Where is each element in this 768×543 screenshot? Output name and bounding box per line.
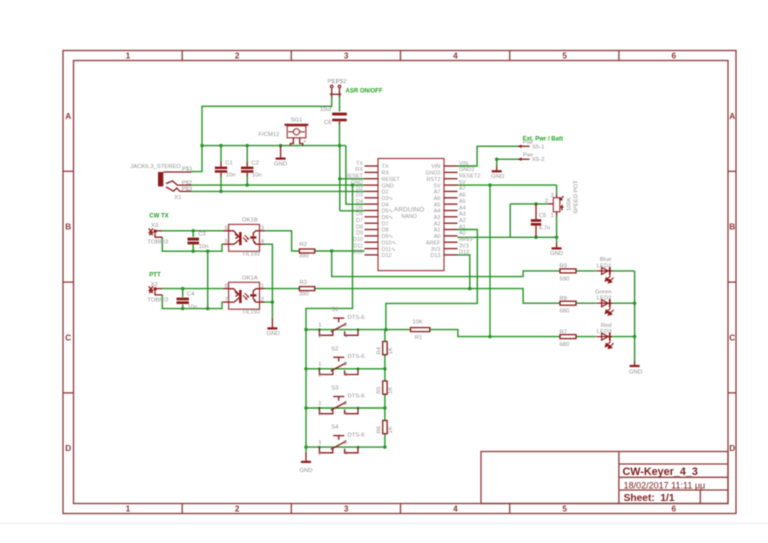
svg-text:Blue: Blue	[600, 257, 613, 263]
svg-text:D5∿: D5∿	[382, 209, 394, 215]
svg-text:Red: Red	[601, 323, 612, 329]
svg-text:F/CM12: F/CM12	[259, 132, 280, 138]
svg-text:D12: D12	[353, 250, 363, 256]
svg-text:680: 680	[560, 309, 571, 315]
svg-text:P$1: P$1	[182, 167, 192, 173]
svg-text:A5: A5	[434, 202, 441, 208]
svg-text:OK1B: OK1B	[242, 217, 258, 223]
svg-text:D11: D11	[353, 243, 363, 249]
svg-text:10uf: 10uf	[320, 107, 332, 113]
svg-text:2: 2	[235, 505, 240, 514]
svg-text:A7: A7	[434, 190, 441, 196]
svg-text:A2: A2	[459, 218, 466, 224]
svg-text:TIL192: TIL192	[242, 252, 260, 258]
svg-text:Pwr: Pwr	[523, 140, 533, 146]
svg-text:Pwr: Pwr	[523, 153, 533, 159]
svg-text:X1: X1	[174, 195, 181, 201]
svg-text:S1: S1	[331, 307, 338, 313]
svg-text:A2: A2	[434, 221, 441, 227]
svg-text:GND: GND	[629, 369, 642, 375]
svg-text:1K: 1K	[388, 387, 394, 394]
svg-text:GND2: GND2	[459, 167, 474, 173]
svg-text:D9: D9	[356, 231, 363, 237]
svg-text:CW TX: CW TX	[149, 214, 168, 220]
svg-text:D12: D12	[382, 253, 392, 259]
svg-text:R1: R1	[415, 335, 423, 341]
svg-text:GND: GND	[491, 174, 504, 180]
svg-text:AREF: AREF	[426, 240, 441, 246]
svg-text:D8: D8	[382, 228, 389, 234]
svg-text:A0: A0	[434, 234, 441, 240]
svg-text:3V3: 3V3	[459, 243, 469, 249]
svg-text:1: 1	[261, 283, 264, 289]
svg-text:DTS-6: DTS-6	[348, 315, 366, 321]
svg-text:Green: Green	[595, 290, 611, 296]
svg-text:A5: A5	[459, 199, 466, 205]
svg-text:590: 590	[560, 276, 571, 282]
svg-text:R9: R9	[560, 264, 568, 270]
svg-text:A4: A4	[459, 205, 466, 211]
svg-text:D: D	[729, 444, 735, 453]
svg-text:AREF: AREF	[459, 237, 474, 243]
svg-text:X5-2: X5-2	[532, 157, 544, 163]
svg-text:5: 5	[562, 51, 567, 60]
svg-text:PTT: PTT	[149, 272, 161, 278]
svg-text:5V: 5V	[434, 183, 441, 189]
svg-text:3: 3	[344, 51, 349, 60]
svg-text:1K: 1K	[388, 426, 394, 433]
svg-text:RESET: RESET	[345, 174, 364, 180]
svg-text:D9∿: D9∿	[382, 234, 394, 240]
svg-text:C5: C5	[539, 213, 547, 219]
svg-text:D4: D4	[356, 199, 363, 205]
svg-text:D6: D6	[356, 212, 363, 218]
svg-text:C: C	[729, 333, 735, 342]
svg-text:4: 4	[453, 51, 458, 60]
svg-text:3: 3	[344, 505, 349, 514]
svg-text:R3: R3	[299, 280, 307, 286]
svg-text:ASR ON/OFF: ASR ON/OFF	[346, 88, 383, 94]
svg-text:R8: R8	[560, 296, 568, 302]
svg-text:TIL192: TIL192	[242, 309, 260, 315]
svg-text:DTS-6: DTS-6	[348, 393, 366, 399]
svg-text:RX: RX	[355, 167, 363, 173]
svg-text:680: 680	[560, 342, 571, 348]
svg-text:D7: D7	[356, 218, 363, 224]
svg-text:TOBBI3: TOBBI3	[147, 297, 169, 303]
svg-text:10n: 10n	[187, 305, 197, 311]
svg-text:S3: S3	[331, 386, 339, 392]
svg-text:1K: 1K	[388, 347, 394, 354]
svg-text:P$2: P$2	[182, 180, 192, 186]
svg-text:GND: GND	[299, 468, 312, 474]
svg-text:D3: D3	[356, 193, 363, 199]
svg-text:B: B	[65, 223, 71, 232]
svg-text:DTS-6: DTS-6	[348, 354, 366, 360]
svg-text:DTS-6: DTS-6	[348, 432, 366, 438]
svg-text:100K: 100K	[567, 197, 573, 211]
svg-text:D6∿: D6∿	[382, 215, 394, 221]
svg-text:TOBBI3: TOBBI3	[147, 240, 169, 246]
svg-text:6: 6	[672, 505, 677, 514]
svg-text:C6: C6	[324, 120, 332, 126]
svg-text:NANO: NANO	[401, 214, 417, 220]
svg-text:C: C	[65, 333, 71, 342]
svg-text:10n: 10n	[226, 173, 236, 179]
svg-text:5: 5	[562, 505, 567, 514]
svg-text:B: B	[729, 223, 735, 232]
svg-text:LED3: LED3	[597, 329, 612, 335]
svg-text:VIN: VIN	[431, 164, 440, 170]
svg-text:GND2: GND2	[425, 171, 440, 177]
svg-text:P$2: P$2	[336, 79, 346, 85]
svg-text:D5: D5	[356, 205, 363, 211]
svg-text:OK1A: OK1A	[242, 275, 258, 281]
svg-text:A1: A1	[434, 228, 441, 234]
svg-text:C3: C3	[198, 232, 206, 238]
svg-text:ARDUINO: ARDUINO	[394, 207, 424, 214]
svg-text:1: 1	[551, 213, 554, 219]
svg-text:GND: GND	[351, 180, 363, 186]
svg-text:-: -	[291, 139, 293, 145]
svg-text:R7: R7	[560, 329, 568, 335]
svg-text:2: 2	[261, 297, 264, 303]
svg-text:P$3: P$3	[182, 187, 193, 193]
svg-text:18/02/2017 11:11 μμ: 18/02/2017 11:11 μμ	[624, 480, 706, 490]
svg-text:X3: X3	[151, 223, 159, 229]
svg-text:A: A	[729, 112, 735, 121]
svg-text:D10: D10	[353, 237, 363, 243]
svg-text:TX: TX	[382, 164, 389, 170]
svg-text:A7: A7	[459, 186, 466, 192]
svg-text:D3∿: D3∿	[382, 196, 394, 202]
svg-text:A3: A3	[459, 212, 466, 218]
svg-text:R6: R6	[377, 425, 383, 433]
svg-text:C4: C4	[187, 292, 195, 298]
svg-text:D11∿: D11∿	[382, 247, 397, 253]
svg-text:RESET2: RESET2	[459, 174, 480, 180]
svg-text:CW-Keyer_4_3: CW-Keyer_4_3	[623, 466, 698, 478]
svg-text:A4: A4	[434, 209, 441, 215]
svg-text:A0: A0	[459, 231, 466, 237]
svg-text:R5: R5	[377, 386, 383, 394]
svg-text:VIN: VIN	[459, 161, 468, 167]
svg-text:X2: X2	[151, 282, 158, 288]
svg-text:4.7n: 4.7n	[539, 225, 550, 231]
svg-text:3V3: 3V3	[431, 247, 441, 253]
svg-text:7: 7	[225, 297, 228, 303]
svg-text:+: +	[303, 139, 307, 145]
svg-text:D10∿: D10∿	[382, 240, 397, 246]
svg-text:1: 1	[126, 505, 131, 514]
svg-text:RST2: RST2	[426, 177, 440, 183]
svg-text:A: A	[65, 112, 71, 121]
svg-text:LED1: LED1	[597, 263, 612, 269]
svg-text:D2: D2	[356, 186, 363, 192]
svg-text:A1: A1	[459, 224, 466, 230]
svg-text:R2: R2	[299, 242, 307, 248]
svg-text:A6: A6	[434, 196, 441, 202]
svg-text:S4: S4	[331, 425, 339, 431]
svg-text:10n: 10n	[252, 173, 262, 179]
svg-text:10n: 10n	[199, 244, 209, 250]
svg-text:X5-1: X5-1	[532, 144, 544, 150]
svg-text:JACK6.3_STEREO: JACK6.3_STEREO	[130, 164, 181, 170]
svg-text:D13: D13	[430, 253, 440, 259]
svg-text:10K: 10K	[413, 319, 424, 325]
svg-text:4: 4	[453, 505, 458, 514]
svg-text:GND: GND	[550, 251, 563, 257]
svg-text:D2: D2	[382, 190, 389, 196]
svg-text:RX: RX	[382, 171, 390, 177]
svg-text:R4: R4	[377, 346, 383, 354]
svg-text:D8: D8	[356, 224, 363, 230]
svg-text:C2: C2	[251, 161, 259, 167]
svg-text:390: 390	[299, 291, 310, 297]
svg-text:GND: GND	[382, 183, 394, 189]
svg-text:S2: S2	[331, 346, 338, 352]
svg-text:390: 390	[299, 254, 310, 260]
svg-text:D7: D7	[382, 221, 389, 227]
svg-text:D4: D4	[382, 202, 389, 208]
svg-text:RESET: RESET	[382, 177, 401, 183]
svg-text:GND: GND	[267, 331, 280, 337]
svg-text:C1: C1	[225, 161, 233, 167]
svg-text:TX: TX	[356, 161, 363, 167]
svg-text:D: D	[65, 444, 71, 453]
svg-text:1: 1	[126, 51, 131, 60]
svg-text:SPEED POT: SPEED POT	[574, 180, 580, 214]
svg-text:D13: D13	[459, 250, 469, 256]
svg-text:Sheet: 1/1: Sheet: 1/1	[624, 493, 675, 504]
svg-text:SG1: SG1	[291, 117, 303, 123]
svg-text:LED2: LED2	[597, 296, 612, 302]
svg-text:A3: A3	[434, 215, 441, 221]
svg-text:2: 2	[545, 199, 548, 205]
svg-text:A6: A6	[459, 193, 466, 199]
svg-text:5V: 5V	[459, 180, 466, 186]
svg-text:2: 2	[235, 51, 240, 60]
svg-text:6: 6	[672, 51, 677, 60]
svg-text:GND: GND	[274, 161, 287, 167]
